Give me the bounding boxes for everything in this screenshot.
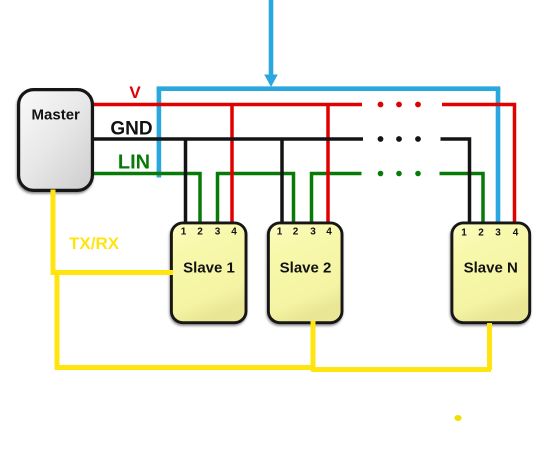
svg-text:V: V — [129, 83, 141, 102]
green wire Slave2 pin3 rightward — [312, 174, 362, 225]
green wire segment to Slave N pin2 — [440, 174, 484, 225]
svg-text:TX/RX: TX/RX — [69, 234, 120, 253]
svg-text:4: 4 — [231, 227, 237, 238]
green continuation dots — [378, 171, 384, 177]
svg-text:3: 3 — [495, 228, 501, 239]
yellow wire lower vertical — [55, 270, 60, 367]
black segment to Slave N pin1 — [441, 139, 470, 224]
svg-text:Slave 1: Slave 1 — [183, 260, 235, 277]
green wire Slave1 pin3 to Slave2 pin2 — [218, 174, 294, 225]
yellow wire up to Slave N bottom — [487, 323, 492, 370]
green LIN bus segment Master to Slave1 pin2 — [92, 174, 200, 225]
black vertical wire to Slave1 pin1 — [184, 139, 188, 224]
svg-text:2: 2 — [293, 227, 299, 238]
svg-text:Slave N: Slave N — [464, 260, 518, 277]
svg-text:GND: GND — [110, 119, 152, 140]
red segment to Slave N pin4 — [442, 105, 515, 225]
cyan right vertical wire to Slave N pin 3 — [496, 88, 501, 224]
stray yellow dot — [454, 415, 461, 421]
svg-text:2: 2 — [197, 227, 203, 238]
red vertical wire to Slave1 pin4 — [230, 105, 234, 225]
svg-text:2: 2 — [478, 228, 484, 239]
yellow wire up to Slave 2 bottom — [311, 321, 316, 370]
Slave N box — [452, 223, 530, 323]
svg-text:LIN: LIN — [118, 152, 150, 174]
svg-text:4: 4 — [326, 227, 332, 238]
Master box — [19, 90, 93, 191]
yellow TX/RX wire from Master down — [51, 190, 56, 272]
cyan arrowhead — [264, 75, 278, 88]
red V bus line from Master — [92, 103, 362, 107]
black continuation dots — [378, 136, 384, 142]
svg-text:3: 3 — [215, 227, 221, 238]
black GND bus line from Master — [92, 137, 363, 141]
svg-text:3: 3 — [310, 227, 316, 238]
black vertical wire to Slave2 pin1 — [280, 139, 284, 224]
cyan left vertical wire to LIN line — [157, 88, 162, 178]
yellow bottom bus wire — [55, 368, 492, 370]
cyan horizontal bus wire — [157, 86, 501, 91]
red vertical wire to Slave2 pin4 — [326, 105, 330, 225]
svg-text:Master: Master — [32, 107, 81, 124]
cyan LIN-signal highlight wire: top arrow shaft — [269, 0, 274, 76]
svg-text:1: 1 — [277, 227, 283, 238]
Slave 2 box — [268, 223, 342, 323]
svg-text:1: 1 — [181, 227, 187, 238]
red continuation dots — [378, 102, 384, 108]
svg-text:Slave 2: Slave 2 — [280, 260, 332, 277]
svg-text:4: 4 — [513, 228, 519, 239]
svg-text:1: 1 — [461, 228, 467, 239]
yellow wire to Slave 1 left side — [51, 270, 174, 275]
Slave 1 box — [171, 223, 246, 323]
